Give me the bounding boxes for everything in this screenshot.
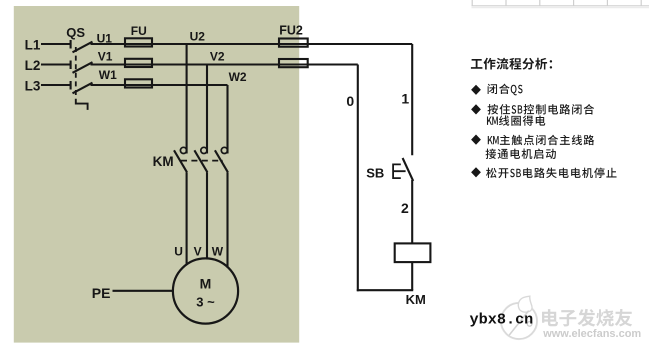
svg-text:FU: FU (131, 24, 147, 38)
wire L3 incoming (41, 84, 70, 86)
svg-text:W2: W2 (229, 70, 247, 84)
wire W to motor (226, 172, 228, 267)
switch QS pole 2 blade (73, 62, 93, 73)
pushbutton SB blade (403, 158, 414, 181)
wire PE to motor (113, 290, 174, 292)
svg-text:3 ~: 3 ~ (196, 295, 215, 310)
bullet text 按住SB控制电路闭合 (488, 104, 595, 115)
wire V to motor (206, 172, 208, 258)
svg-text:U2: U2 (190, 29, 206, 43)
bullet text 松开SB电路失电电机停止 (486, 168, 616, 179)
wire L1 incoming (41, 43, 70, 45)
contactor KM main contact pole 1 (180, 147, 186, 153)
bullet text KM主触点闭合主线路 (488, 135, 595, 146)
switch QS pole 3 blade (73, 83, 93, 94)
bullet diamond 1 (471, 85, 481, 95)
fuse FU2 pole 2 (279, 59, 308, 67)
svg-text:2: 2 (401, 200, 409, 216)
switch QS linkage (dashed) (75, 47, 77, 97)
coil KM (395, 243, 431, 262)
svg-text:W: W (212, 245, 224, 259)
contactor KM linkage (dashed) (181, 160, 223, 162)
wire U to motor (186, 172, 188, 264)
svg-text:V1: V1 (98, 50, 113, 64)
svg-text:QS: QS (66, 25, 85, 40)
svg-text:U: U (174, 245, 183, 259)
fuse FU pole 2 (125, 59, 152, 67)
svg-text:SB: SB (366, 166, 384, 181)
watermark logo circle (501, 296, 537, 339)
wire node 1 vertical (FU2 to SB) (411, 44, 413, 155)
motor M 3~ (173, 258, 238, 323)
svg-text:KM: KM (406, 292, 426, 307)
switch QS handle (76, 99, 88, 110)
wire phase U row (through FU and FU2 to node 1) (91, 43, 413, 45)
svg-text:1: 1 (401, 90, 409, 106)
bullet text KM线圈得电 (487, 115, 545, 125)
svg-text:U1: U1 (97, 31, 113, 45)
switch QS pole 2 fixed contact (70, 61, 72, 70)
watermark text 电子发烧友 (542, 309, 632, 327)
svg-text:M: M (200, 275, 212, 291)
bullet diamond 2 (471, 104, 481, 114)
wire L2 incoming (41, 63, 70, 65)
svg-text:L1: L1 (25, 37, 41, 52)
bullet diamond 4 (471, 167, 481, 177)
fuse FU2 pole 1 (279, 39, 308, 47)
svg-text:0: 0 (346, 93, 354, 109)
table gridline top-right (472, 0, 649, 8)
wire node V2 vertical drop (206, 65, 208, 154)
svg-text:W1: W1 (99, 68, 117, 82)
pushbutton SB actuator (393, 164, 406, 178)
svg-text:V: V (194, 245, 202, 259)
bullet text 闭合QS (488, 84, 523, 96)
fuse FU pole 1 (125, 38, 152, 46)
bullet text 接通电机启动 (486, 149, 556, 160)
svg-text:V2: V2 (210, 50, 225, 64)
svg-text:PE: PE (92, 285, 111, 301)
svg-text:KM: KM (153, 154, 174, 169)
svg-text:FU2: FU2 (279, 23, 303, 37)
svg-text:ybx8.cn: ybx8.cn (470, 311, 534, 329)
switch QS pole 3 fixed contact (70, 81, 72, 90)
wire node 2 vertical (SB to KM coil) (411, 180, 413, 243)
circuit background panel (14, 6, 299, 343)
fuse FU pole 3 (125, 79, 152, 87)
wire node U2 vertical drop (186, 44, 188, 154)
wire bottom return (357, 289, 413, 291)
wire node 0 vertical (357, 65, 359, 292)
contactor KM main contact pole 2 (201, 147, 207, 153)
heading 工作流程分析 (471, 58, 552, 70)
switch QS pole 1 blade (73, 42, 93, 53)
wire phase W row (through FU to node W2) (91, 84, 228, 86)
wire KM coil to bottom (411, 262, 413, 290)
svg-text:www.elecfans.com: www.elecfans.com (542, 328, 641, 340)
contactor KM main contact pole 3 (221, 147, 227, 153)
wire phase V row (through FU and FU2 to node 0) (91, 63, 358, 65)
wire node W2 vertical drop (226, 85, 228, 154)
svg-text:L2: L2 (25, 58, 41, 73)
svg-text:L3: L3 (25, 79, 41, 94)
bullet diamond 3 (471, 135, 481, 145)
switch QS pole 1 fixed contact (70, 40, 72, 49)
